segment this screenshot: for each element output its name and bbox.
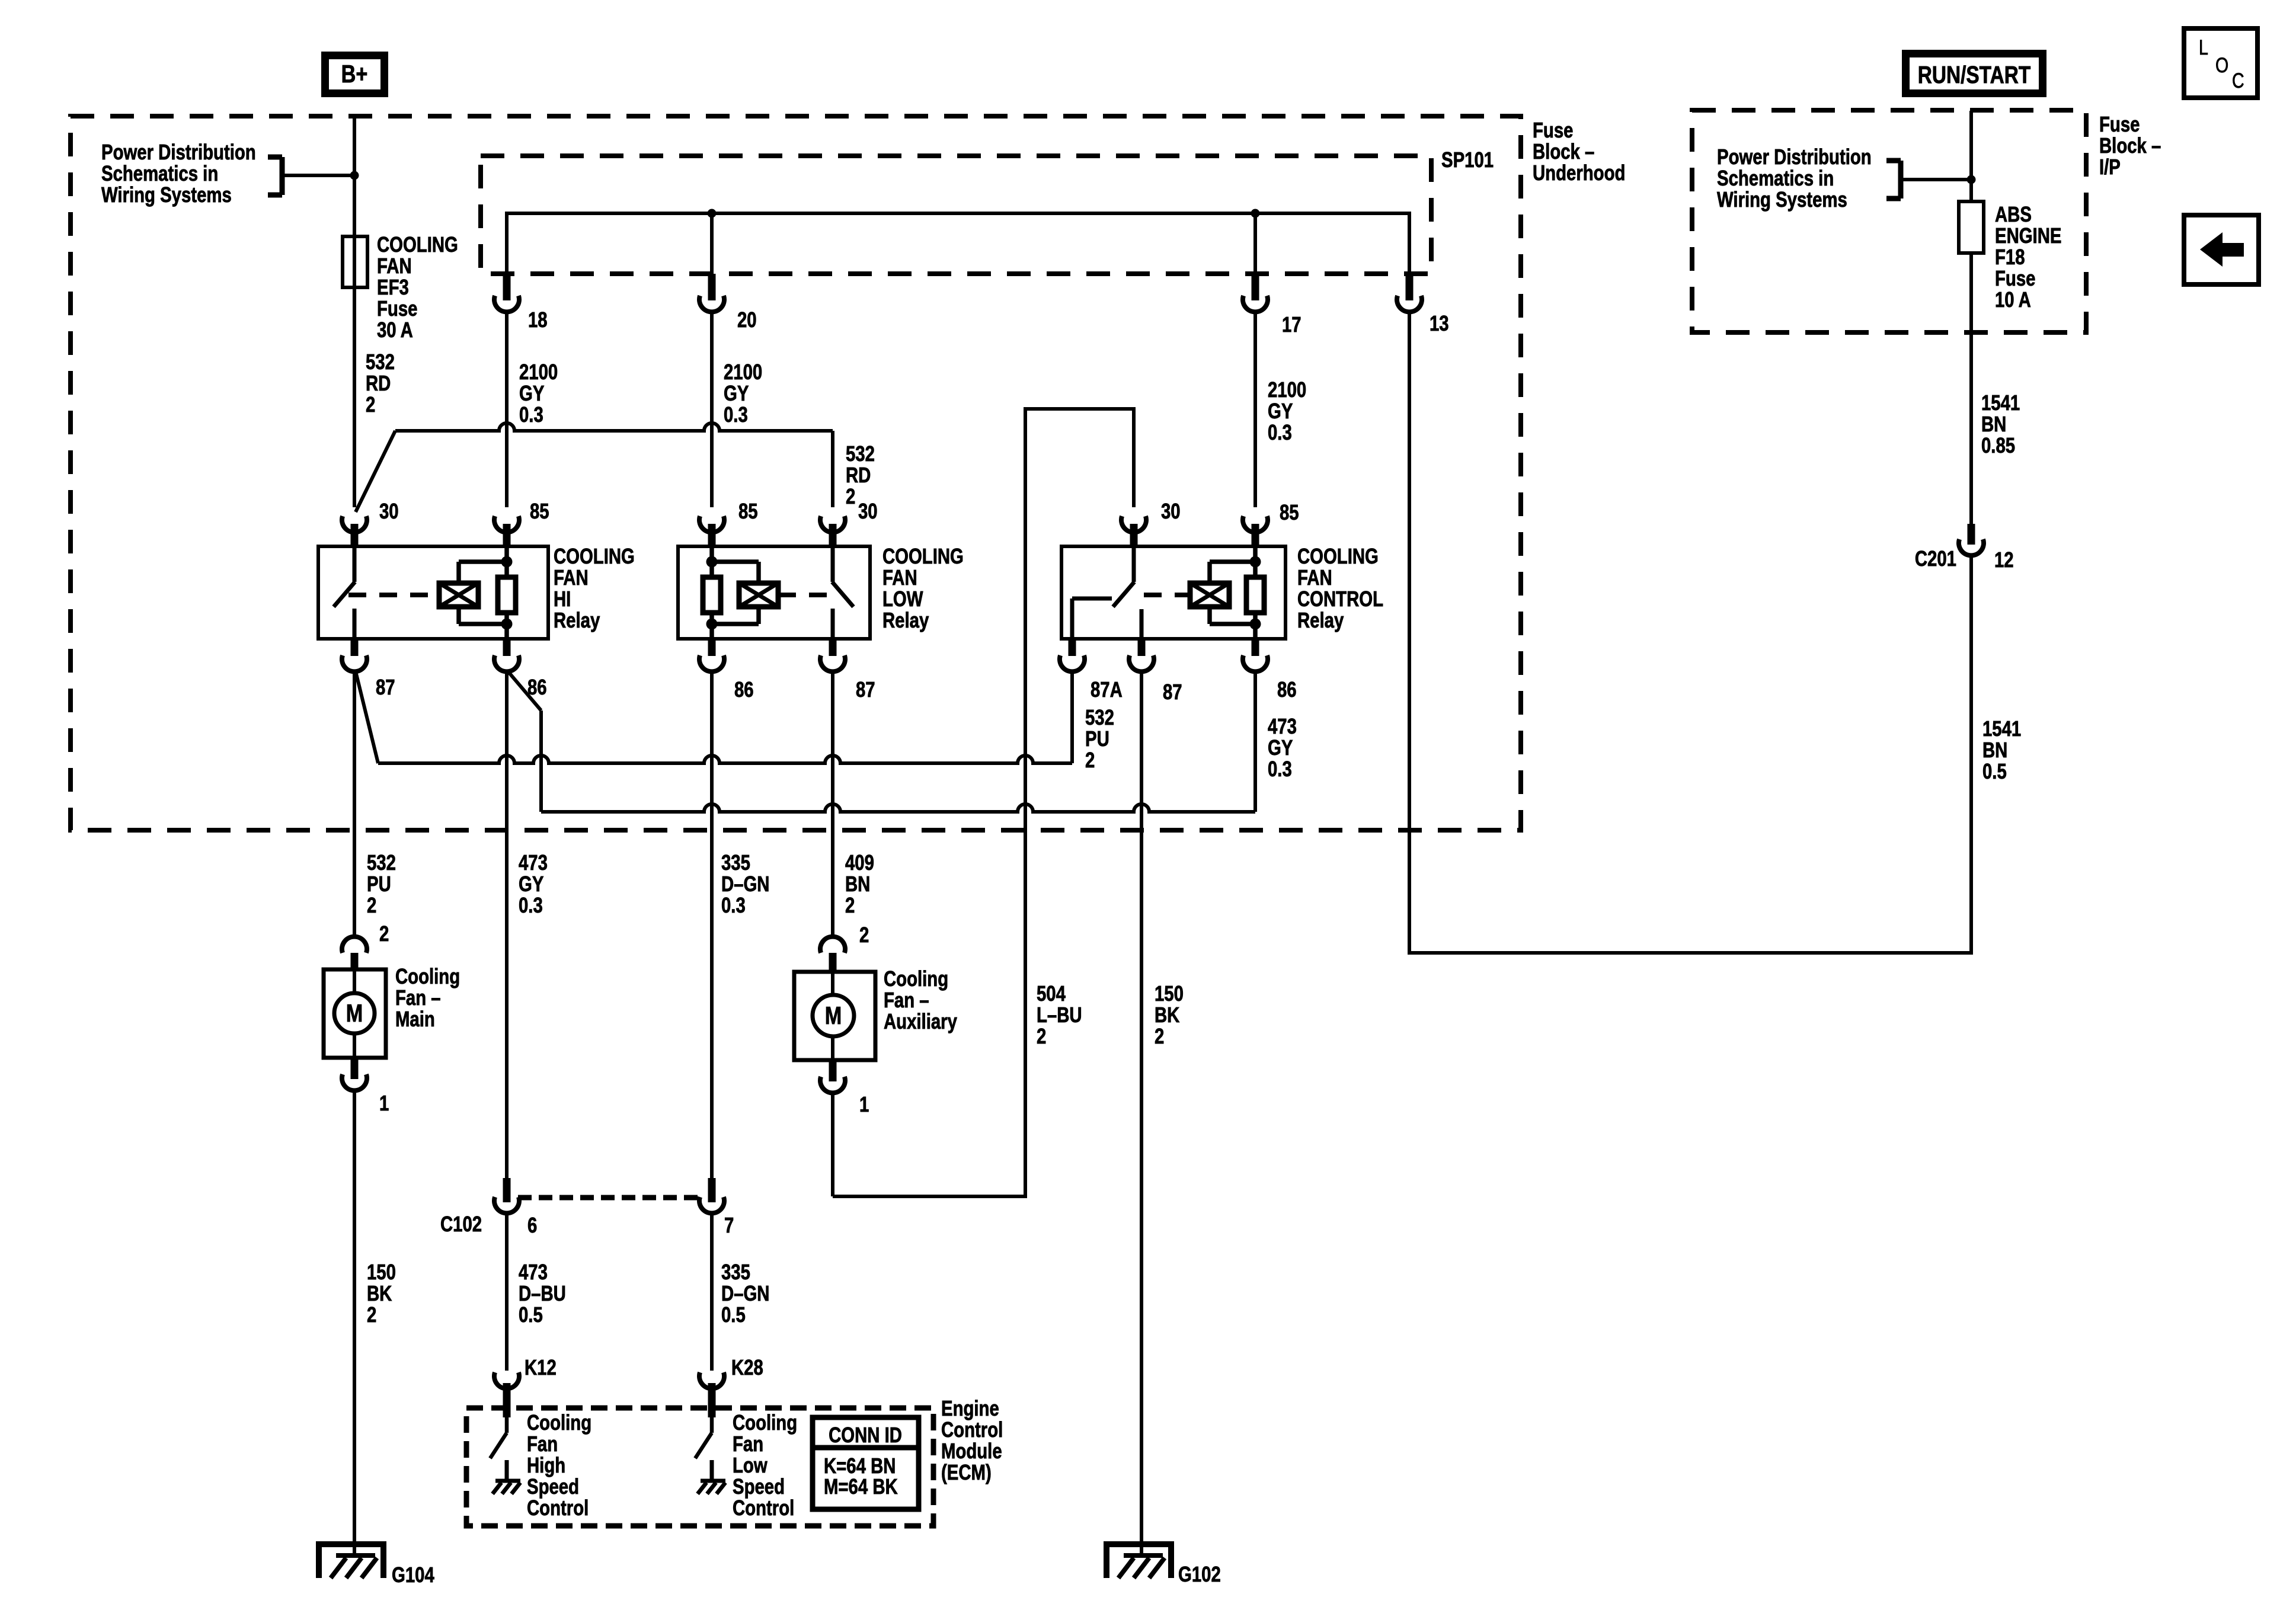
svg-text:30: 30: [379, 499, 399, 523]
svg-text:Engine: Engine: [941, 1396, 999, 1420]
svg-text:HI: HI: [554, 587, 571, 611]
svg-text:7: 7: [724, 1213, 734, 1237]
fuse block I/P dashed box: [1692, 110, 2086, 332]
svg-text:473: 473: [519, 1260, 548, 1284]
svg-text:86: 86: [734, 677, 754, 702]
fuse F18 ABS ENGINE 10A: [1959, 201, 1984, 253]
svg-text:K28: K28: [731, 1355, 763, 1379]
relay HI pin 30 connector: [342, 516, 367, 532]
svg-text:Relay: Relay: [1297, 608, 1344, 632]
svg-text:Schematics in: Schematics in: [1717, 166, 1834, 190]
wire 473 GY bus HI-86 to CONTROL-86: [508, 671, 541, 710]
wire 532 PU HI-87 to main fan: [353, 671, 356, 936]
svg-text:532: 532: [367, 850, 396, 875]
svg-text:2100: 2100: [724, 360, 762, 384]
svg-text:FAN: FAN: [882, 565, 917, 590]
svg-text:Cooling: Cooling: [733, 1410, 797, 1435]
B+ battery feed terminal: [321, 52, 388, 97]
svg-text:2: 2: [845, 893, 855, 917]
relay LOW pin 85 connector: [699, 516, 724, 532]
relay CONTROL coil dashed link: [1144, 593, 1190, 597]
relay HI pin 87 connector: [351, 639, 359, 656]
svg-text:G102: G102: [1178, 1562, 1221, 1586]
svg-text:GY: GY: [724, 381, 749, 405]
svg-text:Control: Control: [527, 1496, 589, 1520]
svg-text:335: 335: [721, 850, 750, 875]
wire 335 D-GN LOW-86 to C102 pin7: [710, 671, 714, 1178]
ground (ECM high speed): [505, 1460, 509, 1481]
svg-text:Fan: Fan: [733, 1432, 763, 1456]
svg-text:BK: BK: [1155, 1003, 1180, 1027]
wire 2100 GY pin20 to LOW relay 85: [710, 312, 714, 507]
svg-text:2: 2: [366, 392, 375, 417]
svg-text:Speed: Speed: [733, 1474, 785, 1499]
power distribution reference bracket (right): [1898, 161, 1904, 199]
svg-text:Wiring Systems: Wiring Systems: [1717, 187, 1847, 212]
svg-text:6: 6: [527, 1213, 537, 1237]
relay COOLING FAN CONTROL box: [1061, 546, 1285, 639]
node junction on B+ wire: [350, 171, 359, 180]
svg-text:FAN: FAN: [554, 565, 589, 590]
svg-text:BN: BN: [1981, 412, 2006, 436]
wire 1541 BN 0.85 fuse to C201: [1969, 253, 1973, 524]
svg-text:Relay: Relay: [554, 608, 600, 632]
svg-text:1541: 1541: [1981, 391, 2020, 415]
svg-text:2: 2: [367, 1302, 376, 1327]
svg-text:C102: C102: [440, 1212, 482, 1236]
svg-text:BN: BN: [845, 872, 870, 896]
wire 473 D-BU C102 to ECM K12: [505, 1214, 509, 1371]
svg-text:30: 30: [1161, 499, 1181, 523]
svg-text:FAN: FAN: [377, 254, 412, 278]
svg-text:Block –: Block –: [2099, 133, 2161, 158]
fuse EF3 COOLING FAN 30A: [343, 236, 367, 287]
splice pack SP101 dashed box: [481, 156, 1431, 274]
svg-text:0.5: 0.5: [721, 1302, 746, 1327]
svg-text:2: 2: [859, 923, 869, 947]
relay CONTROL pin 87 connector: [1138, 639, 1146, 656]
svg-text:Relay: Relay: [882, 608, 929, 632]
node junction bus/pin17: [1251, 209, 1260, 218]
motor Cooling Fan Auxiliary pin 2 connector: [820, 937, 845, 953]
svg-text:13: 13: [1430, 311, 1449, 335]
relay HI pin 86 connector: [503, 639, 511, 656]
svg-text:Cooling: Cooling: [884, 966, 948, 991]
svg-text:GY: GY: [519, 872, 543, 896]
relay LOW switch: [831, 546, 835, 582]
svg-text:1: 1: [859, 1092, 869, 1116]
svg-text:2100: 2100: [1268, 377, 1306, 402]
svg-text:2: 2: [379, 921, 389, 946]
svg-text:12: 12: [1994, 548, 2014, 572]
svg-text:D–GN: D–GN: [721, 1281, 769, 1305]
svg-text:2: 2: [1155, 1024, 1164, 1048]
CONN ID table: [813, 1417, 919, 1509]
svg-text:Fuse: Fuse: [1533, 118, 1573, 142]
wire SP101 bus: [507, 213, 1409, 274]
svg-text:EF3: EF3: [377, 275, 409, 299]
connector C102 pin 6: [503, 1178, 511, 1202]
svg-text:GY: GY: [1268, 399, 1293, 423]
wire 409 BN LOW-87 to aux fan: [831, 671, 834, 936]
svg-text:Main: Main: [395, 1007, 435, 1031]
svg-text:Fuse: Fuse: [1995, 266, 2035, 290]
svg-text:LOW: LOW: [882, 587, 923, 611]
svg-text:B+: B+: [341, 60, 368, 88]
svg-text:0.3: 0.3: [724, 402, 748, 427]
relay HI coil resistor: [498, 577, 516, 613]
svg-text:CONTROL: CONTROL: [1297, 587, 1383, 611]
wire 2100 GY pin18 to HI relay 85: [505, 312, 509, 507]
svg-text:85: 85: [1280, 500, 1299, 524]
motor Cooling Fan Main: [324, 969, 386, 1058]
svg-text:87: 87: [376, 675, 395, 699]
svg-text:0.85: 0.85: [1981, 433, 2015, 457]
svg-text:87A: 87A: [1091, 677, 1123, 702]
wire 150 BK main fan to G104: [353, 1092, 356, 1555]
svg-text:Fan –: Fan –: [884, 988, 929, 1012]
relay HI coil: [439, 583, 478, 607]
svg-text:473: 473: [1268, 714, 1297, 738]
svg-text:PU: PU: [367, 872, 391, 896]
svg-text:2: 2: [846, 484, 855, 508]
fuse block underhood dashed box: [71, 116, 1521, 830]
svg-text:409: 409: [845, 850, 874, 875]
relay HI pin 85 connector: [494, 516, 519, 532]
wire bus drop to pin 17: [1253, 213, 1257, 274]
relay CONTROL pin 85 connector: [1243, 516, 1268, 532]
svg-text:PU: PU: [1085, 726, 1109, 751]
svg-text:10 A: 10 A: [1995, 287, 2031, 312]
wire 532 RD branch to LOW relay 30: [356, 431, 395, 512]
svg-text:473: 473: [519, 850, 548, 875]
relay CONTROL switch: [1132, 546, 1136, 582]
svg-text:85: 85: [738, 499, 758, 523]
svg-text:D–BU: D–BU: [519, 1281, 566, 1305]
svg-text:87: 87: [856, 677, 875, 702]
relay CONTROL pin 30 connector: [1121, 516, 1146, 532]
svg-text:FAN: FAN: [1297, 565, 1332, 590]
svg-text:Schematics in: Schematics in: [101, 161, 218, 185]
connector C102 pin 7: [708, 1178, 716, 1202]
relay LOW pin 86 connector: [708, 639, 716, 656]
svg-text:30 A: 30 A: [377, 318, 413, 342]
node junction on RUN/START wire: [1967, 175, 1976, 184]
svg-text:Power Distribution: Power Distribution: [101, 140, 256, 164]
power distribution reference bracket (left): [280, 157, 285, 195]
svg-text:Wiring Systems: Wiring Systems: [101, 183, 232, 207]
svg-text:M: M: [825, 1002, 842, 1030]
svg-text:Cooling: Cooling: [395, 964, 460, 988]
svg-text:ABS: ABS: [1995, 202, 2032, 226]
relay CONTROL pin 86 connector: [1252, 639, 1259, 656]
svg-text:High: High: [527, 1453, 565, 1477]
relay LOW coil: [739, 583, 778, 607]
svg-text:Block –: Block –: [1533, 139, 1594, 164]
wire B+ to HI relay pin 30: [353, 117, 356, 507]
svg-text:0.3: 0.3: [519, 893, 543, 917]
RUN/START ignition feed terminal: [1902, 50, 2046, 97]
svg-text:0.3: 0.3: [721, 893, 746, 917]
svg-text:C201: C201: [1915, 546, 1956, 571]
icon back arrow box: [2184, 215, 2259, 284]
svg-text:20: 20: [737, 308, 757, 332]
connector ECM pin K12: [494, 1372, 519, 1388]
connector pin 20 (fuse block): [708, 274, 716, 300]
svg-text:Fan –: Fan –: [395, 985, 441, 1010]
wire 335 D-GN C102 to ECM K28: [710, 1214, 714, 1371]
ECM dashed box: [466, 1408, 933, 1526]
svg-text:0.3: 0.3: [1268, 757, 1292, 781]
svg-text:M=64 BK: M=64 BK: [824, 1474, 898, 1499]
wire 504 L-BU CONTROL-30 to aux fan: [833, 409, 1134, 1196]
svg-text:30: 30: [858, 499, 878, 523]
svg-text:F18: F18: [1995, 245, 2025, 269]
svg-text:532: 532: [1085, 705, 1114, 729]
svg-text:Cooling: Cooling: [527, 1410, 591, 1435]
svg-text:(ECM): (ECM): [941, 1460, 992, 1484]
node junction bus/pin20: [708, 209, 717, 218]
svg-text:0.5: 0.5: [1982, 759, 2007, 783]
svg-text:L–BU: L–BU: [1037, 1003, 1082, 1027]
svg-text:I/P: I/P: [2099, 155, 2121, 179]
relay CONTROL coil resistor: [1246, 577, 1264, 613]
motor Cooling Fan Main pin 2 connector: [342, 937, 367, 953]
svg-text:0.5: 0.5: [519, 1302, 543, 1327]
wire RUN/START to fuse F18: [1969, 111, 1973, 201]
connector C102 dashed line: [518, 1195, 699, 1201]
svg-text:RD: RD: [366, 371, 391, 395]
relay CONTROL pin 87A connector: [1069, 639, 1076, 656]
svg-text:2100: 2100: [519, 360, 558, 384]
svg-text:87: 87: [1163, 680, 1182, 704]
svg-text:2: 2: [1037, 1024, 1046, 1048]
wire 150 BK CONTROL-87 to G102: [1140, 671, 1143, 1555]
svg-text:Fuse: Fuse: [377, 296, 417, 321]
icon LOC legend box: [2184, 28, 2257, 98]
relay HI switch: [353, 546, 357, 582]
relay LOW coil dashed link: [778, 593, 839, 597]
svg-text:COOLING: COOLING: [882, 544, 964, 568]
svg-text:K12: K12: [525, 1355, 557, 1379]
ECM low speed driver switch: [710, 1417, 714, 1433]
connector ECM pin K28: [699, 1372, 724, 1388]
svg-text:C: C: [2232, 69, 2244, 92]
svg-text:18: 18: [528, 308, 548, 332]
motor Cooling Fan Main pin 1 connector: [351, 1058, 359, 1079]
svg-text:SP101: SP101: [1441, 148, 1494, 172]
svg-text:Fuse: Fuse: [2099, 112, 2140, 136]
ground G104: [319, 1544, 383, 1578]
svg-text:Power Distribution: Power Distribution: [1717, 145, 1872, 169]
connector pin 18 (fuse block): [503, 274, 511, 300]
svg-text:RUN/START: RUN/START: [1918, 61, 2031, 88]
svg-text:D–GN: D–GN: [721, 872, 769, 896]
wire 532 PU bus HI-87 to CONTROL-87A: [356, 671, 378, 763]
relay LOW pin 87 connector: [829, 639, 837, 656]
svg-text:Fan: Fan: [527, 1432, 558, 1456]
relay CONTROL coil: [1190, 583, 1229, 607]
icon back arrow: [2200, 232, 2244, 267]
svg-text:ENGINE: ENGINE: [1995, 223, 2061, 248]
motor Cooling Fan Auxiliary: [794, 972, 875, 1060]
svg-text:Module: Module: [941, 1439, 1002, 1463]
svg-text:150: 150: [367, 1260, 396, 1284]
svg-text:COOLING: COOLING: [554, 544, 635, 568]
svg-text:85: 85: [530, 499, 549, 523]
svg-text:17: 17: [1282, 312, 1302, 337]
svg-text:Auxiliary: Auxiliary: [884, 1009, 958, 1033]
svg-text:BN: BN: [1982, 738, 2007, 762]
svg-text:504: 504: [1037, 981, 1066, 1006]
svg-text:Low: Low: [733, 1453, 768, 1477]
wire aux fan pin1 to 504 L-BU: [831, 1094, 834, 1196]
wire bracket to B+ wire: [282, 174, 354, 177]
svg-text:2: 2: [1085, 748, 1095, 772]
svg-text:COOLING: COOLING: [1297, 544, 1379, 568]
relay HI coil dashed link: [348, 593, 439, 597]
relay LOW pin 30 connector: [820, 516, 845, 532]
relay COOLING FAN HI box: [318, 546, 548, 639]
wire bus drop to pin 20: [710, 213, 714, 274]
svg-text:GY: GY: [1268, 735, 1293, 760]
relay LOW coil resistor: [703, 577, 721, 613]
ECM high speed driver switch: [505, 1417, 509, 1433]
svg-text:Underhood: Underhood: [1533, 161, 1625, 185]
svg-text:335: 335: [721, 1260, 750, 1284]
svg-text:M: M: [346, 1000, 363, 1028]
connector pin 13 (fuse block): [1406, 274, 1414, 300]
svg-text:RD: RD: [846, 463, 871, 487]
svg-text:Control: Control: [733, 1496, 794, 1520]
svg-text:COOLING: COOLING: [377, 232, 458, 257]
relay COOLING FAN LOW box: [678, 546, 870, 639]
svg-text:2: 2: [367, 893, 376, 917]
svg-text:L: L: [2199, 36, 2208, 59]
svg-text:532: 532: [846, 441, 875, 466]
svg-text:BK: BK: [367, 1281, 392, 1305]
svg-text:86: 86: [1277, 677, 1297, 702]
wire bracket to RUN/START wire: [1901, 178, 1971, 181]
connector C201 pin 12: [1968, 524, 1975, 545]
wire 2100 GY pin17 to CONTROL relay 85: [1253, 312, 1257, 507]
svg-text:G104: G104: [392, 1563, 434, 1587]
svg-text:1541: 1541: [1982, 716, 2021, 741]
ground G102: [1107, 1544, 1171, 1578]
ground (ECM low speed): [710, 1460, 714, 1481]
svg-text:CONN ID: CONN ID: [829, 1423, 902, 1447]
connector pin 17 (fuse block): [1252, 274, 1259, 300]
svg-text:532: 532: [366, 350, 395, 374]
svg-text:0.3: 0.3: [519, 402, 543, 427]
svg-text:1: 1: [379, 1091, 389, 1115]
wire 473 GY HI-86 to C102 pin6: [505, 671, 509, 1178]
svg-text:O: O: [2215, 53, 2228, 76]
svg-text:Control: Control: [941, 1417, 1003, 1442]
motor Cooling Fan Auxiliary pin 1 connector: [829, 1060, 837, 1081]
svg-text:Speed: Speed: [527, 1474, 579, 1499]
svg-text:150: 150: [1155, 981, 1184, 1006]
wire 1541 BN 0.5 C201 to fuse block pin 13: [1409, 312, 1971, 953]
svg-text:0.3: 0.3: [1268, 420, 1292, 444]
svg-text:GY: GY: [519, 381, 544, 405]
